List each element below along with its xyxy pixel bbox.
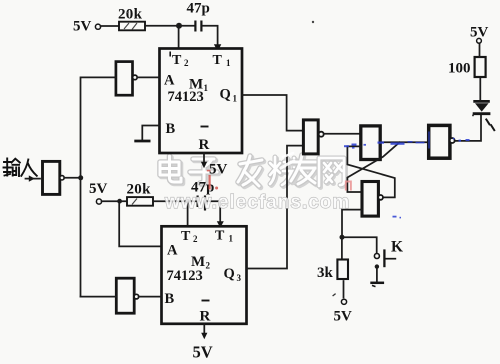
watermark erasure dabs over wires — [281, 153, 294, 168]
wire R1 to node — [145, 25, 195, 27]
cross-coupled feedback wire from G4 output to G5 upper input — [347, 142, 399, 192]
svg-text:B: B — [165, 291, 175, 307]
wire 5V to R1 — [101, 25, 119, 27]
svg-text:1: 1 — [233, 94, 238, 104]
node before R2 — [117, 199, 122, 204]
power terminal 5V (M2) — [89, 181, 108, 204]
wire 5V to node — [102, 200, 127, 202]
wire G0 out to bus node — [64, 177, 80, 179]
inverter G1 — [116, 62, 137, 96]
wire C2 to T1 pin M2 — [206, 201, 220, 222]
resistor R1 20k — [118, 7, 145, 31]
arrow down 5V at M1 reset — [201, 162, 207, 168]
svg-text:74123: 74123 — [168, 89, 204, 105]
wire node down to T2 pin — [178, 26, 180, 49]
switch K — [370, 239, 403, 287]
cross-coupled feedback wire from G5 output to G4 lower input — [347, 146, 394, 197]
char you — [291, 155, 318, 186]
svg-text:A: A — [164, 73, 175, 89]
capacitor C1 47p — [187, 1, 210, 32]
svg-text:20k: 20k — [127, 182, 152, 198]
power terminal 5V top-right — [470, 25, 489, 44]
IC U1: M1 74123 — [160, 49, 243, 154]
inverter G2 — [116, 278, 138, 313]
gate G5 — [362, 182, 383, 217]
wire Q3 to G3 lower input — [247, 146, 304, 269]
wire node to switch K — [342, 237, 377, 253]
node at 3k / switch — [340, 235, 345, 240]
wire G1 out to A pin M1 — [137, 76, 159, 78]
wire Q1 to G3 upper input — [242, 95, 303, 131]
input buffer G0 — [43, 161, 65, 194]
svg-text:5V: 5V — [193, 343, 213, 362]
svg-text:Q: Q — [220, 87, 231, 103]
watermark URL www.elecfans.com — [164, 192, 350, 213]
wire C1 to T1 pin — [203, 26, 218, 45]
svg-text:3k: 3k — [317, 265, 334, 281]
svg-text:20k: 20k — [118, 7, 143, 23]
svg-text:2: 2 — [206, 261, 211, 271]
wire G4 out to G6 input — [380, 141, 428, 143]
svg-text:47p: 47p — [187, 1, 210, 17]
resistor R3 100 — [448, 57, 486, 77]
wire node down to R4 — [341, 237, 343, 261]
svg-text:5V: 5V — [209, 162, 228, 178]
wire node down to T2 pin M2 — [187, 201, 189, 226]
char fa — [238, 156, 264, 188]
blue scan artifacts — [344, 132, 470, 218]
input arrow — [26, 175, 41, 181]
power terminal 5V top-left — [73, 19, 101, 35]
char shao — [270, 157, 301, 187]
svg-text:R: R — [199, 137, 210, 153]
svg-text:T: T — [172, 53, 182, 68]
char wang — [319, 158, 346, 188]
svg-text:5V: 5V — [73, 19, 92, 35]
terminal circle 5V bottom — [341, 299, 346, 304]
svg-text:Q: Q — [224, 266, 235, 282]
wire G2 out to B pin M2 — [139, 296, 162, 298]
node on bus at input — [78, 175, 83, 180]
gate G3 — [303, 120, 323, 154]
svg-text:R: R — [200, 309, 211, 325]
svg-text:T: T — [181, 229, 191, 244]
input label (Chinese: shu ru) — [4, 159, 37, 177]
svg-text:T: T — [213, 53, 223, 68]
gate G4 — [361, 126, 380, 160]
resistor R4 3k — [317, 260, 348, 282]
wire R4 to terminal — [343, 281, 345, 298]
svg-text:3: 3 — [237, 273, 242, 283]
resistor R2 20k — [127, 182, 154, 206]
node junction above T2 — [176, 23, 182, 29]
gate G6 — [429, 125, 455, 158]
svg-text:B: B — [166, 121, 176, 137]
svg-text:1: 1 — [229, 234, 234, 244]
LED D1 — [473, 101, 495, 131]
IC U2: M2 74123 — [162, 226, 247, 324]
capacitor C2 47p — [191, 180, 214, 211]
svg-text:www.elecfans.com: www.elecfans.com — [164, 192, 350, 213]
svg-text:K: K — [391, 239, 403, 256]
wire R3 to 5V terminal — [479, 44, 481, 58]
svg-text:74123: 74123 — [167, 268, 203, 284]
svg-text:2: 2 — [184, 58, 189, 68]
wire bus input to G1 — [81, 77, 116, 296]
red scan artifacts near 47p — [207, 171, 218, 190]
svg-text:100: 100 — [448, 61, 471, 77]
wire LED to R3 — [479, 77, 481, 100]
char dian — [160, 156, 183, 184]
wire G5 lower input to node — [342, 210, 362, 237]
arrow into T1 of M2 — [217, 221, 224, 228]
arrow into T1 of M1 — [214, 44, 221, 51]
svg-text:1: 1 — [226, 58, 231, 68]
node above T2 of M2 — [185, 199, 190, 204]
watermark Chinese characters (behind schematic) — [160, 155, 346, 188]
svg-text:A: A — [167, 243, 178, 259]
wire G3 out to G4 input — [324, 133, 361, 135]
wire R pin of M1 down — [203, 153, 205, 163]
wire G6 out to LED — [455, 115, 481, 141]
wire bus corner to G2 input — [81, 296, 117, 298]
svg-text:T: T — [215, 229, 225, 244]
ground at M1 B — [134, 140, 150, 143]
char zi — [190, 159, 219, 185]
scan speck — [472, 114, 474, 116]
wire R2 to node at T2 — [153, 200, 197, 202]
svg-text:5V: 5V — [334, 309, 353, 325]
wire R pin of M2 down — [203, 324, 205, 334]
wire B pin of M1 to ground — [142, 126, 159, 141]
svg-text:2: 2 — [193, 234, 198, 244]
pink artifact near G5 — [346, 182, 351, 191]
wire node down to A pin M2 — [119, 201, 161, 246]
svg-text:1: 1 — [204, 83, 209, 93]
arrow down 5V at M2 reset — [201, 333, 207, 339]
svg-text:5V: 5V — [89, 181, 108, 197]
scan tick near terminal — [333, 294, 336, 296]
